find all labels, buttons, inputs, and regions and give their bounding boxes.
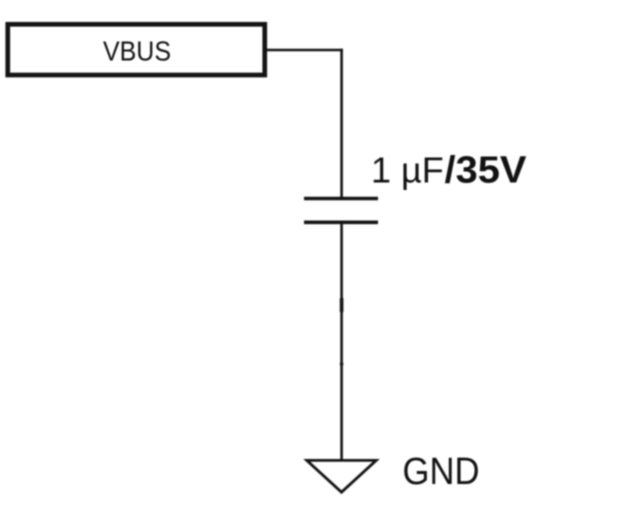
net VBUS box — [8, 24, 265, 75]
wire horizontal from VBUS to node — [265, 49, 343, 52]
wire vertical capacitor to ground — [340, 222, 343, 460]
ground symbol triangle — [307, 460, 376, 492]
wire segment joint tick — [340, 298, 344, 312]
svg-text:GND: GND — [403, 451, 480, 493]
wire vertical node to capacitor top — [340, 49, 343, 199]
wire joint dot — [340, 362, 344, 366]
svg-text:1 µF: 1 µF — [371, 150, 444, 191]
capacitor C1 top plate — [304, 197, 378, 201]
svg-text:/35V: /35V — [445, 150, 528, 192]
svg-text:VBUS: VBUS — [103, 35, 171, 66]
capacitor C1 bottom plate — [304, 221, 378, 225]
